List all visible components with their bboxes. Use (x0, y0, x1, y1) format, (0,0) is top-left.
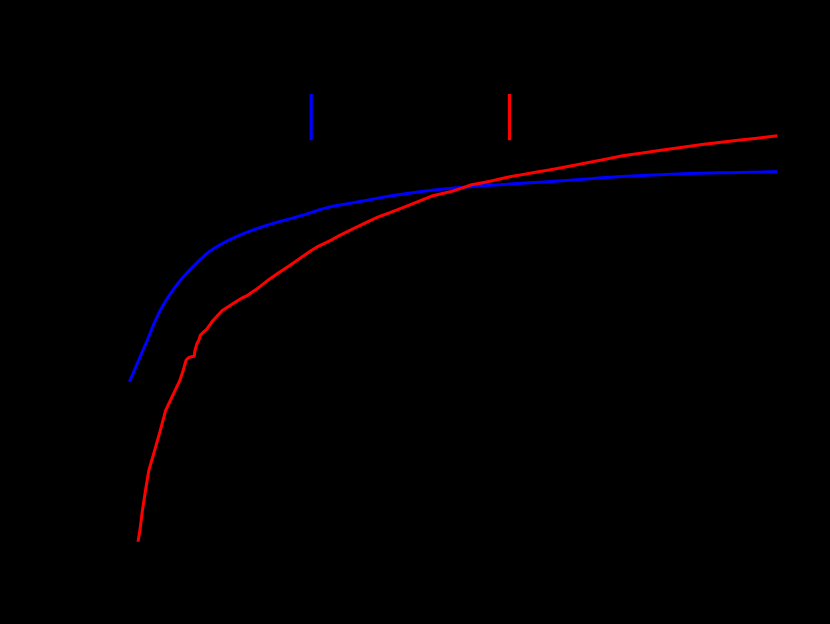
legend marker blue (310, 94, 313, 140)
blue curve (129, 172, 777, 382)
legend marker red (508, 94, 511, 140)
red curve (138, 136, 777, 542)
